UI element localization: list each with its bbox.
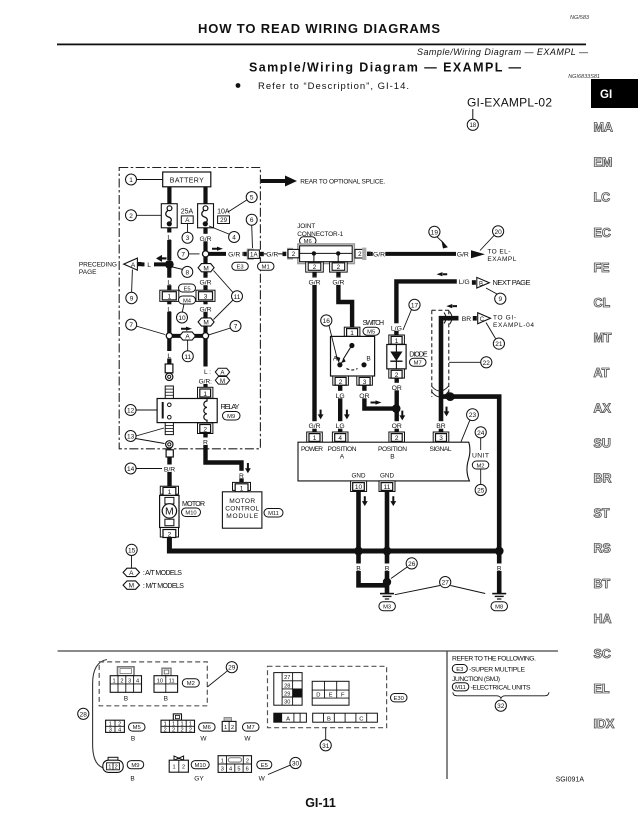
svg-text:EL: EL — [594, 682, 610, 696]
svg-text:MOTOR: MOTOR — [182, 501, 205, 508]
callout 32 — [495, 700, 506, 711]
callout 29 — [207, 662, 237, 687]
svg-text:M3: M3 — [383, 604, 391, 610]
svg-text:MA: MA — [594, 121, 613, 135]
svg-text:G/R: G/R — [199, 306, 211, 313]
svg-text:30: 30 — [284, 700, 290, 706]
flow arrow down on BR lower — [444, 407, 450, 417]
motor pin box 1 — [160, 486, 178, 496]
connector ref oval M9 — [223, 412, 241, 421]
svg-text:M6: M6 — [203, 725, 211, 731]
svg-text:EXAMPL: EXAMPL — [487, 256, 516, 263]
callout 26 — [391, 558, 417, 579]
unit body with wavy right edge — [298, 442, 470, 481]
wire BR unit pin3 up through box to corner — [441, 318, 459, 442]
connector ref oval M7 — [410, 358, 427, 366]
connector view M6 (4x2) — [161, 714, 195, 734]
svg-text:TO EL-: TO EL- — [487, 248, 510, 255]
svg-text:20: 20 — [494, 229, 502, 236]
preceding page triangle A — [124, 258, 142, 270]
svg-text:M11: M11 — [268, 511, 279, 517]
svg-text:14: 14 — [127, 466, 135, 473]
callout 17 — [403, 299, 420, 330]
svg-text:MT: MT — [594, 331, 612, 345]
svg-text:L: L — [167, 280, 171, 287]
wire G/R bottom-right pin to switch pin 1 — [330, 277, 352, 328]
connector ref oval M10 view — [191, 761, 209, 783]
svg-text:HA: HA — [594, 612, 612, 626]
svg-text:LC: LC — [594, 191, 611, 205]
svg-text:24: 24 — [477, 430, 485, 437]
svg-text:11: 11 — [169, 678, 175, 684]
svg-text:2: 2 — [395, 435, 399, 442]
svg-text:13: 13 — [127, 434, 135, 441]
wire OR switch pin3 to OR junction — [357, 385, 393, 408]
joint connector body — [298, 244, 354, 264]
connector ref oval M4 — [179, 296, 196, 304]
junction dot bus left — [354, 547, 363, 556]
callout 22 — [449, 357, 492, 368]
hexagon M lower — [198, 318, 214, 327]
relay pin box 1 — [198, 387, 213, 398]
flow arrow left above BR — [446, 304, 457, 308]
svg-text:2: 2 — [203, 426, 207, 433]
svg-text:SU: SU — [594, 436, 611, 450]
svg-text:B: B — [479, 281, 483, 287]
svg-text:M: M — [129, 583, 134, 590]
wire R relay to MCM — [201, 434, 247, 483]
svg-text:29: 29 — [220, 217, 227, 224]
svg-text:10: 10 — [157, 678, 163, 684]
svg-text:E30: E30 — [394, 696, 404, 702]
svg-text:1: 1 — [108, 765, 111, 771]
svg-text:AT: AT — [594, 366, 610, 380]
svg-text:3: 3 — [186, 235, 190, 242]
svg-text:EXAMPL-04: EXAMPL-04 — [493, 322, 534, 329]
wire L splice to connector — [167, 339, 171, 364]
flow arrow left on L/G — [437, 272, 448, 276]
wire color legend L:A G/R:M — [197, 367, 230, 386]
relay hatched connector upper — [165, 386, 173, 399]
svg-text:E5: E5 — [261, 763, 268, 769]
svg-text:G/R: G/R — [266, 252, 278, 259]
svg-text:M10: M10 — [185, 511, 196, 517]
svg-text:L: L — [167, 306, 171, 313]
section tabs — [594, 121, 616, 732]
flow arrow down at MCM corner — [245, 463, 251, 473]
connector ref oval M11 — [264, 509, 283, 518]
svg-text:3: 3 — [128, 678, 131, 684]
dashed box connectors M2 — [99, 662, 207, 706]
flow arrow right on G/R — [212, 247, 223, 251]
callout 9 right — [486, 288, 506, 304]
unit GND pin box 10 — [351, 481, 367, 492]
joint connector right SMJ pin 2 — [355, 248, 371, 260]
svg-text:JUNCTION (SMJ): JUNCTION (SMJ) — [452, 676, 500, 683]
callout 9 — [126, 270, 137, 304]
connector view M10 (1x2 with bowtie clip) — [169, 756, 188, 772]
connector view M2-B (2x2 grid) — [154, 668, 178, 702]
wire battery to fuse F2 — [203, 187, 207, 204]
svg-text:G/R: G/R — [373, 252, 385, 259]
svg-text:PAGE: PAGE — [79, 269, 97, 276]
flow arrow left near junction — [162, 257, 167, 259]
wire label L — [164, 233, 174, 242]
svg-text:1: 1 — [189, 722, 192, 728]
motor M10 body — [160, 495, 179, 527]
arrow REAR TO OPTIONAL SPLICE — [261, 176, 385, 187]
dashed box SMJ detail — [268, 666, 387, 727]
REFER box left border — [446, 651, 448, 779]
wire G/R fuse2 down to splice — [203, 228, 207, 251]
svg-text:UNIT: UNIT — [472, 453, 489, 460]
svg-text:B: B — [497, 566, 502, 573]
flow arrow right above A hexagon — [181, 327, 192, 331]
motor pin box 2 — [160, 528, 178, 539]
bullet — [236, 83, 241, 88]
wire label L — [164, 304, 174, 313]
connector ref oval M3 — [379, 602, 396, 611]
svg-text:2: 2 — [180, 728, 183, 734]
relay M9 body — [157, 399, 217, 423]
wire G/R splice to 1A with label — [209, 250, 244, 259]
inline connector double circle — [166, 373, 173, 380]
dash-dot option box — [119, 168, 260, 449]
svg-text:SWITCH: SWITCH — [363, 320, 385, 327]
svg-text:1: 1 — [164, 722, 167, 728]
svg-text:OR: OR — [359, 393, 369, 400]
svg-text:A: A — [340, 454, 345, 461]
svg-text:2: 2 — [120, 678, 123, 684]
splice open circle left — [166, 333, 172, 339]
svg-text:BT: BT — [594, 577, 611, 591]
svg-text:G/R: G/R — [308, 280, 320, 287]
ground symbol M8 — [492, 594, 506, 599]
svg-text:5: 5 — [250, 195, 254, 202]
wire OR diode pin2 to unit pin 2 — [390, 378, 404, 432]
diode pin box 1 — [389, 335, 405, 345]
switch pin box 3 — [357, 376, 373, 386]
svg-text:Refer to “Description”, GI-14.: Refer to “Description”, GI-14. — [258, 81, 409, 92]
ground bus wire — [356, 549, 500, 554]
svg-text:GND: GND — [352, 473, 366, 480]
callout 23 — [461, 409, 478, 442]
svg-text:7: 7 — [234, 324, 238, 331]
SMJ row B C — [313, 713, 378, 722]
svg-text:15: 15 — [128, 547, 136, 554]
svg-text:LG: LG — [336, 393, 345, 400]
svg-text:Sample/Wiring Diagram — EXAMPL: Sample/Wiring Diagram — EXAMPL — — [249, 61, 522, 75]
svg-text:M: M — [203, 265, 208, 272]
svg-text:A: A — [286, 716, 290, 722]
callout 5 — [228, 192, 257, 212]
svg-text:E: E — [329, 692, 333, 698]
svg-text:B: B — [390, 454, 395, 461]
svg-text:G/R: G/R — [308, 423, 320, 430]
svg-text:M: M — [203, 320, 208, 327]
switch pin box 1 — [344, 327, 360, 337]
connector ref oval E5 view — [257, 761, 272, 783]
connector ref oval M1 — [258, 262, 275, 270]
svg-text:11: 11 — [234, 294, 241, 301]
SMJ terminal 1A — [244, 249, 264, 260]
svg-text:1: 1 — [313, 435, 317, 442]
connector ref oval E5 — [179, 284, 196, 292]
callout 11 lower — [182, 340, 193, 362]
wire GND11 to bus — [385, 492, 390, 554]
wire L fuse1 to junction — [167, 228, 171, 260]
junction dot grounds — [383, 578, 391, 586]
svg-text:9: 9 — [130, 296, 134, 303]
flow arrow down on LG — [344, 410, 350, 420]
svg-text:C: C — [480, 317, 485, 323]
connector ref oval M10 — [182, 508, 201, 517]
connector ref oval M7 view — [243, 723, 260, 743]
unit pin box 4 POSITION A — [332, 432, 348, 442]
svg-text:2: 2 — [172, 728, 175, 734]
callout 12 — [125, 405, 157, 416]
svg-text:AX: AX — [594, 401, 612, 415]
svg-text:L: L — [147, 262, 151, 269]
connector view M2-A (4x2 grid) — [110, 667, 141, 703]
text JOINT CONNECTOR-1 — [297, 223, 343, 238]
svg-text:28: 28 — [284, 683, 290, 689]
svg-text:10A: 10A — [217, 209, 230, 216]
callout 28 — [78, 708, 89, 719]
svg-text:2: 2 — [337, 264, 341, 271]
connector view M7 (1x2) — [222, 718, 236, 732]
svg-text:4: 4 — [232, 235, 236, 242]
svg-text:A: A — [131, 262, 136, 269]
svg-text:3: 3 — [204, 294, 208, 301]
svg-text:-ELECTRICAL UNITS: -ELECTRICAL UNITS — [471, 684, 531, 691]
svg-text:1: 1 — [109, 722, 112, 728]
wire G/R pin3 down to splice — [203, 301, 207, 332]
callout 19 with arrow — [429, 226, 448, 248]
svg-text:RELAY: RELAY — [221, 402, 240, 411]
svg-text:2: 2 — [313, 264, 317, 271]
connector ref oval E30 — [391, 694, 408, 702]
svg-text:25A: 25A — [181, 209, 194, 216]
svg-text:B: B — [356, 566, 361, 573]
svg-text:27: 27 — [442, 580, 450, 587]
svg-text:5: 5 — [237, 767, 240, 773]
wire G/R joint connector right to arrow — [371, 250, 470, 259]
svg-text:C: C — [359, 716, 363, 722]
hexagon M upper — [198, 264, 214, 273]
flow arrow down GND11 — [390, 496, 396, 506]
svg-text:SGI091A: SGI091A — [556, 777, 585, 784]
splice open circle right — [202, 333, 208, 339]
svg-text:2: 2 — [231, 725, 234, 731]
svg-text:10: 10 — [355, 484, 363, 491]
svg-text:G/R: G/R — [199, 280, 211, 287]
stub wire triangle to junction with label L — [142, 260, 170, 269]
flow arrow down on G/R — [318, 410, 324, 420]
callout 7 right — [209, 321, 241, 335]
callout 27 — [395, 577, 486, 595]
svg-text:POSITION: POSITION — [328, 446, 357, 453]
svg-text:6: 6 — [250, 217, 254, 224]
svg-text:W: W — [259, 776, 266, 783]
svg-text:12: 12 — [127, 408, 135, 415]
svg-text:W: W — [244, 736, 251, 743]
svg-text:M2: M2 — [476, 463, 484, 469]
relay hatched connector lower — [165, 423, 173, 435]
svg-text:29: 29 — [228, 665, 236, 672]
wire G/R 1A to joint connector with label — [264, 250, 283, 259]
svg-text:2: 2 — [115, 765, 118, 771]
svg-text:BATTERY: BATTERY — [170, 177, 204, 184]
svg-text:1: 1 — [172, 722, 175, 728]
wire L junction down to connector pin 1 — [167, 264, 171, 291]
wire B/R to motor — [162, 457, 177, 486]
connector ref oval M6 view — [199, 723, 216, 743]
svg-text:1: 1 — [129, 177, 133, 184]
svg-text:1: 1 — [180, 722, 183, 728]
svg-text:16: 16 — [323, 318, 331, 325]
svg-text:ST: ST — [594, 507, 610, 521]
svg-text:BR: BR — [462, 316, 472, 323]
svg-text:L: L — [167, 353, 171, 360]
wire battery to fuse F1 — [167, 187, 171, 204]
svg-text:2: 2 — [189, 728, 192, 734]
wire L pin1 to splice — [167, 301, 171, 332]
svg-text:7: 7 — [181, 251, 185, 258]
svg-text:W: W — [200, 736, 207, 743]
svg-text:1: 1 — [224, 725, 227, 731]
motor control module M11 box — [222, 492, 262, 528]
svg-text:4: 4 — [338, 435, 342, 442]
svg-text:OR: OR — [392, 423, 402, 430]
svg-text:1A: 1A — [250, 252, 258, 259]
joint connector bottom pin 2 right — [330, 262, 348, 277]
svg-text:4: 4 — [118, 728, 121, 734]
svg-text:26: 26 — [408, 561, 416, 568]
joint connector left SMJ pin 2 — [283, 248, 300, 260]
svg-text:MODULE: MODULE — [226, 513, 259, 520]
svg-text:B: B — [327, 716, 331, 722]
callout 6 — [246, 214, 257, 248]
flow arrow down on OR — [399, 411, 405, 421]
svg-text:REFER TO THE FOLLOWING.: REFER TO THE FOLLOWING. — [452, 656, 536, 663]
ground symbol M3 — [380, 594, 394, 599]
svg-text:B/R: B/R — [164, 467, 175, 474]
svg-text:REAR TO OPTIONAL SPLICE.: REAR TO OPTIONAL SPLICE. — [300, 179, 385, 186]
svg-text:DIODE: DIODE — [409, 352, 428, 359]
svg-text:2: 2 — [129, 213, 133, 220]
svg-text:A: A — [185, 334, 190, 341]
MCM pin box 1 — [233, 482, 251, 492]
legend hexagon A : A/T MODELS — [123, 568, 182, 577]
svg-text:R: R — [203, 440, 208, 447]
svg-text:B: B — [130, 776, 134, 783]
svg-text:M1: M1 — [262, 265, 270, 271]
svg-text:M7: M7 — [247, 725, 255, 731]
connector ref oval M6 — [300, 237, 317, 245]
switch pin box 2 — [333, 376, 349, 386]
svg-text:TO GI-: TO GI- — [493, 314, 516, 321]
svg-text:3: 3 — [439, 435, 443, 442]
svg-text:M9: M9 — [227, 414, 235, 420]
svg-text:HOW TO READ WIRING DIAGRAMS: HOW TO READ WIRING DIAGRAMS — [198, 21, 440, 36]
svg-text:B: B — [385, 566, 390, 573]
dashed continuation box — [432, 310, 453, 397]
SMJ grid 27-30 — [274, 673, 302, 706]
svg-text:2: 2 — [292, 251, 296, 258]
junction dot BR — [446, 392, 455, 401]
text PRECEDING PAGE — [79, 261, 117, 276]
wire G/R bottom-left pin to unit POWER pin — [307, 277, 323, 432]
svg-text:Sample/Wiring Diagram — EXAMPL: Sample/Wiring Diagram — EXAMPL — — [417, 47, 589, 57]
svg-text:CONTROL: CONTROL — [225, 506, 259, 513]
svg-text:30: 30 — [292, 761, 300, 768]
SMJ grid D E F — [312, 681, 349, 705]
wire G/R splice to relay pin 1 — [203, 339, 207, 388]
svg-text:BR: BR — [436, 423, 446, 430]
wire B right to ground — [494, 551, 504, 593]
callout 20 — [480, 226, 504, 251]
svg-text:32: 32 — [497, 703, 505, 710]
svg-text:1: 1 — [113, 678, 116, 684]
separator line — [58, 650, 558, 652]
callout 16 with arrow to contact A — [321, 315, 341, 363]
svg-text:OR: OR — [392, 385, 402, 392]
big parenthesis bracket — [93, 660, 107, 769]
svg-text:G/R:: G/R: — [199, 379, 213, 386]
svg-text:B: B — [366, 356, 370, 363]
unit pin box 3 SIGNAL — [433, 432, 449, 442]
svg-text:L/G: L/G — [391, 325, 402, 332]
svg-text:2: 2 — [118, 722, 121, 728]
svg-text:M5: M5 — [133, 725, 141, 731]
svg-text:B: B — [164, 696, 168, 703]
svg-text:M10: M10 — [195, 763, 206, 769]
svg-text:27: 27 — [284, 675, 290, 681]
brace under refer list — [453, 692, 549, 698]
svg-text:MOTOR: MOTOR — [229, 498, 255, 505]
svg-text:B: B — [131, 736, 135, 743]
svg-text:G/R: G/R — [332, 280, 344, 287]
svg-text:E3: E3 — [456, 667, 463, 673]
oval E3 refer — [452, 665, 525, 674]
fusible link F2 10A — [198, 204, 214, 228]
svg-text:E5: E5 — [183, 286, 190, 292]
wire label BR top — [460, 314, 473, 323]
svg-text:11: 11 — [184, 354, 191, 361]
wire G/R splice down to pin3 — [203, 257, 207, 291]
unit pin box 2 POSITION B — [389, 432, 405, 442]
svg-text:29: 29 — [284, 691, 290, 697]
svg-text:2: 2 — [395, 372, 399, 379]
svg-text:2: 2 — [182, 764, 185, 770]
diode pin box 2 — [389, 369, 405, 379]
svg-text:1: 1 — [203, 391, 207, 398]
svg-text:22: 22 — [483, 360, 491, 367]
connector ref oval M8 — [491, 602, 508, 611]
wire L/G diode to NEXT PAGE line — [388, 277, 471, 336]
wire motor pin2 to ground bus — [169, 537, 358, 551]
svg-text:21: 21 — [495, 341, 503, 348]
svg-text:LG: LG — [336, 423, 345, 430]
relay lower double circle connector — [166, 441, 173, 448]
unit GND pin box 11 — [379, 481, 395, 492]
svg-text:B: B — [124, 696, 128, 703]
callout 18 — [472, 109, 474, 119]
svg-text:2: 2 — [358, 251, 362, 258]
svg-text:M: M — [165, 506, 174, 518]
callout 3 — [182, 224, 193, 244]
